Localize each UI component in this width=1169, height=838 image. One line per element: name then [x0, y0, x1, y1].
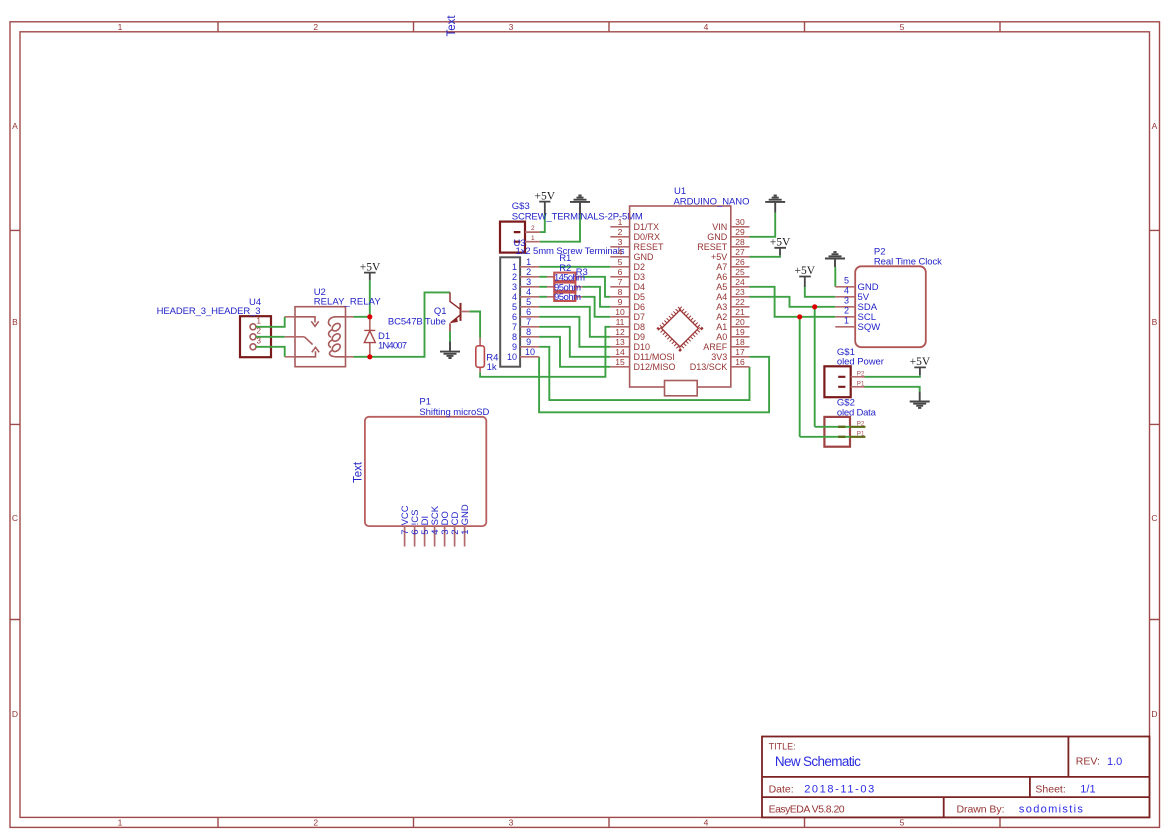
- svg-text:15: 15: [615, 357, 625, 367]
- svg-text:RESET: RESET: [697, 242, 728, 252]
- wire connector.2 to R1: [539, 276, 547, 278]
- title block box: [762, 737, 1150, 818]
- resistor R2: [547, 263, 583, 293]
- svg-text:1/1: 1/1: [1080, 783, 1095, 795]
- wire G$1 P1 to ground: [865, 387, 920, 392]
- svg-text:7: 7: [618, 277, 623, 287]
- ground (under Q1): [440, 342, 460, 359]
- relay pin stubs: [285, 317, 354, 357]
- svg-text:23: 23: [735, 287, 745, 297]
- svg-text:6: 6: [526, 307, 531, 317]
- wire P2 5V to +5V: [805, 287, 836, 297]
- right pin numbers U1: [735, 217, 745, 367]
- wire G$1 P2 to +5V: [865, 375, 920, 377]
- ground (P2 GND): [825, 252, 845, 267]
- svg-text:D2: D2: [634, 262, 646, 272]
- wire Q1 emitter to ground: [449, 331, 451, 341]
- junction node SCL: [797, 314, 802, 319]
- wire A4 to P2 SDA: [750, 297, 836, 307]
- svg-text:19: 19: [735, 327, 745, 337]
- junction node (relay top): [367, 314, 372, 319]
- svg-text:30: 30: [735, 217, 745, 227]
- svg-text:GND: GND: [707, 232, 728, 242]
- svg-text:4: 4: [704, 817, 709, 827]
- svg-text:3: 3: [844, 295, 849, 305]
- svg-text:3: 3: [509, 817, 514, 827]
- frame ticks left: [10, 230, 20, 619]
- wire U4.2 to relay pin2: [256, 336, 285, 338]
- wire connector.6 to D10: [539, 317, 610, 347]
- svg-text:sodomistis: sodomistis: [1019, 804, 1084, 816]
- wire connector.4 to R3: [539, 296, 547, 298]
- svg-text:2: 2: [512, 272, 517, 282]
- svg-text:SQW: SQW: [858, 322, 881, 333]
- svg-text:14: 14: [615, 347, 625, 357]
- svg-text:21: 21: [735, 307, 745, 317]
- row letters right: [1151, 121, 1157, 719]
- svg-text:4: 4: [844, 285, 849, 295]
- svg-text:8: 8: [512, 332, 517, 342]
- column numbers bottom: [118, 817, 905, 827]
- svg-text:oled Power: oled Power: [837, 356, 884, 367]
- wire Arduino +5V27 to power: [750, 255, 781, 256]
- junction node (relay bottom): [367, 354, 372, 359]
- svg-text:10: 10: [507, 352, 517, 362]
- svg-text:1: 1: [512, 262, 517, 272]
- svg-text:RESET: RESET: [634, 242, 665, 252]
- svg-text:C: C: [12, 513, 18, 523]
- wire SCL branch to G$2 P1 (over box): [800, 436, 850, 438]
- svg-text:25: 25: [735, 267, 745, 277]
- wire connector.3 to R2: [539, 286, 547, 288]
- svg-text:Shifting microSD: Shifting microSD: [419, 407, 489, 418]
- svg-text:5: 5: [900, 817, 905, 827]
- svg-text:D7: D7: [634, 312, 646, 322]
- wire SDA branch (vertical): [814, 307, 816, 427]
- svg-text:+5V: +5V: [910, 356, 931, 368]
- svg-text:REV:: REV:: [1076, 756, 1100, 768]
- U1 chip diamond with pin hatching: [659, 308, 700, 349]
- header U4: [157, 297, 271, 357]
- P1 pin stubs: [405, 526, 465, 546]
- wire relay top to +5V node: [354, 280, 370, 316]
- svg-text:VIN: VIN: [712, 222, 727, 232]
- wire SDA branch to G$2 P2 (over box): [815, 426, 850, 428]
- svg-text:TITLE:: TITLE:: [769, 742, 796, 752]
- svg-text:D8: D8: [634, 322, 646, 332]
- svg-text:29: 29: [735, 227, 745, 237]
- relay switch lever: [304, 337, 312, 345]
- wire Q1 base to R4: [469, 312, 480, 338]
- wire SCL branch (vertical): [799, 317, 801, 437]
- svg-text:A7: A7: [716, 262, 727, 272]
- svg-text:1: 1: [257, 316, 262, 325]
- TITLEBLOCK: [762, 737, 1150, 818]
- wire G$2 P2 stub overlap (olive): [838, 426, 865, 428]
- svg-text:GND: GND: [634, 252, 655, 262]
- svg-text:9: 9: [512, 342, 517, 352]
- wire U4.1 to relay pin1: [256, 317, 285, 327]
- svg-text:7: 7: [512, 322, 517, 332]
- svg-text:BC547B Tube: BC547B Tube: [388, 316, 446, 327]
- svg-text:GND: GND: [460, 504, 471, 525]
- svg-text:2: 2: [526, 267, 531, 277]
- relay U2: [285, 287, 382, 367]
- wire R3 to D7: [583, 297, 611, 317]
- wire G$3.1 to ground: [540, 215, 580, 242]
- resistor R3: [547, 267, 588, 303]
- svg-text:26: 26: [735, 257, 745, 267]
- svg-text:11: 11: [616, 317, 625, 327]
- P1 pin names (rotated): [400, 504, 471, 525]
- svg-text:B: B: [1152, 317, 1158, 327]
- wire connector.5 to D9: [539, 307, 610, 337]
- U1 bottom tab: [665, 381, 698, 396]
- left pin names U1: [634, 222, 676, 372]
- svg-text:3: 3: [618, 237, 623, 247]
- svg-text:3: 3: [512, 282, 517, 292]
- svg-text:D3: D3: [634, 272, 646, 282]
- wire A5 to P2 SCL: [750, 287, 836, 317]
- junction node SDA: [812, 304, 817, 309]
- power +5V (Arduino pin 27): [770, 237, 791, 256]
- svg-text:D5: D5: [634, 292, 646, 302]
- svg-text:2: 2: [844, 305, 849, 315]
- svg-text:A3: A3: [716, 302, 727, 312]
- column numbers top: [118, 22, 905, 32]
- connector P2 Real Time Clock: [835, 247, 942, 348]
- svg-text:P1: P1: [857, 380, 865, 387]
- svg-text:D: D: [12, 709, 18, 719]
- svg-text:2: 2: [618, 227, 623, 237]
- svg-text:27: 27: [735, 247, 745, 257]
- svg-text:A0: A0: [716, 332, 727, 342]
- row letters left: [12, 121, 18, 719]
- svg-text:New Schematic: New Schematic: [775, 754, 861, 769]
- svg-text:C: C: [1151, 513, 1157, 523]
- frame ticks top: [218, 22, 1000, 32]
- svg-text:+5V: +5V: [535, 191, 556, 203]
- svg-text:6: 6: [512, 312, 517, 322]
- svg-text:1: 1: [526, 257, 531, 267]
- wire connector.9 to D13/SCK: [539, 347, 749, 400]
- svg-text:7: 7: [526, 317, 531, 327]
- svg-text:D11/MOSI: D11/MOSI: [634, 352, 675, 362]
- connector G$2 oled Data: [824, 397, 876, 446]
- svg-text:17: 17: [735, 347, 745, 357]
- svg-text:ARDUINO_NANO: ARDUINO_NANO: [674, 196, 750, 207]
- svg-text:D4: D4: [634, 282, 646, 292]
- wire G$2 P1 stub overlap (olive): [838, 436, 865, 438]
- transistor Q1: [388, 292, 470, 331]
- svg-text:D: D: [1151, 709, 1157, 719]
- svg-text:Drawn By:: Drawn By:: [957, 804, 1005, 816]
- svg-text:A2: A2: [716, 312, 727, 322]
- svg-text:4: 4: [618, 247, 623, 257]
- relay coil: [329, 317, 346, 357]
- resistor R4: [476, 338, 499, 373]
- right pin names U1: [690, 222, 728, 372]
- svg-text:5: 5: [526, 297, 531, 307]
- svg-text:R3: R3: [576, 267, 588, 278]
- left pin numbers U1: [615, 217, 625, 367]
- wire Arduino GND29 to ground: [750, 213, 776, 237]
- screw terminal G$3: [500, 201, 643, 257]
- connector G$1 oled Power: [824, 347, 884, 397]
- svg-text:2: 2: [313, 817, 318, 827]
- frame ticks right: [1150, 230, 1160, 619]
- wire R4 to D8: [480, 327, 610, 377]
- svg-text:5: 5: [512, 302, 517, 312]
- svg-text:Sheet:: Sheet:: [1035, 783, 1065, 795]
- svg-text:+5V: +5V: [360, 261, 381, 273]
- wire R2 to D6: [583, 287, 611, 307]
- power +5V (relay): [360, 261, 381, 280]
- wire U4.3 to relay pin3: [256, 347, 285, 357]
- power +5V (G$3): [535, 191, 556, 215]
- svg-text:D13/SCK: D13/SCK: [690, 362, 728, 372]
- svg-text:8: 8: [526, 327, 531, 337]
- svg-text:3: 3: [509, 22, 514, 32]
- svg-text:6: 6: [618, 267, 623, 277]
- svg-text:oled Data: oled Data: [837, 407, 877, 418]
- svg-text:Date:: Date:: [769, 783, 794, 795]
- connector P1 Shifting microSD: [353, 397, 490, 547]
- svg-text:24: 24: [735, 277, 745, 287]
- svg-text:+5V: +5V: [711, 252, 727, 262]
- svg-text:4: 4: [512, 292, 517, 302]
- svg-text:D1/TX: D1/TX: [634, 222, 660, 232]
- svg-text:D0/RX: D0/RX: [634, 232, 661, 242]
- svg-text:Text: Text: [353, 461, 365, 483]
- ground (Arduino GND pin 29): [765, 196, 785, 213]
- svg-text:1: 1: [118, 22, 123, 32]
- wire connector.1 to D2: [539, 266, 610, 268]
- svg-text:1.0: 1.0: [1107, 756, 1122, 768]
- wire G$3.2 to +5V: [540, 215, 545, 233]
- svg-text:+5V: +5V: [795, 265, 816, 277]
- svg-text:EasyEDA V5.8.20: EasyEDA V5.8.20: [769, 804, 845, 816]
- svg-text:1: 1: [531, 235, 535, 242]
- connector 10-pin (screw terminals): [500, 257, 539, 366]
- svg-text:4: 4: [526, 287, 531, 297]
- ground (G$1): [910, 392, 930, 408]
- svg-text:R2: R2: [559, 263, 571, 274]
- svg-text:RELAY_RELAY: RELAY_RELAY: [314, 296, 382, 307]
- svg-text:4: 4: [704, 22, 709, 32]
- wire relay bottom node to Q1 collector: [354, 292, 451, 356]
- svg-text:3: 3: [526, 277, 531, 287]
- svg-text:2: 2: [531, 225, 535, 232]
- svg-text:D10: D10: [634, 342, 651, 352]
- svg-text:A6: A6: [716, 272, 727, 282]
- svg-text:D6: D6: [634, 302, 646, 312]
- svg-text:1: 1: [118, 817, 123, 827]
- diode D1: [364, 318, 407, 356]
- relay contact arrows: [295, 317, 319, 327]
- svg-text:A: A: [12, 121, 18, 131]
- svg-text:10: 10: [615, 307, 625, 317]
- svg-text:16: 16: [735, 357, 745, 367]
- power +5V (G$1): [910, 356, 931, 375]
- svg-text:20: 20: [735, 317, 745, 327]
- svg-text:5: 5: [844, 275, 849, 285]
- svg-text:+5V: +5V: [770, 237, 791, 249]
- svg-text:SCREW_TERMINALS-2P-5MM: SCREW_TERMINALS-2P-5MM: [512, 212, 643, 223]
- svg-text:1N4007: 1N4007: [378, 341, 407, 352]
- frame ticks bottom: [218, 817, 1000, 827]
- svg-text:8: 8: [618, 287, 623, 297]
- svg-text:1: 1: [460, 530, 471, 535]
- svg-text:D9: D9: [634, 332, 646, 342]
- svg-text:1: 1: [844, 315, 849, 325]
- svg-text:10: 10: [525, 347, 535, 357]
- power +5V (P2 5V): [795, 265, 816, 287]
- svg-text:3V3: 3V3: [711, 352, 727, 362]
- svg-text:28: 28: [735, 237, 745, 247]
- left pin stubs U1: [610, 227, 629, 367]
- wire connector.7 to D11: [539, 327, 610, 357]
- svg-text:2: 2: [313, 22, 318, 32]
- svg-text:18: 18: [735, 337, 745, 347]
- svg-text:22: 22: [735, 297, 745, 307]
- ground (G$3): [570, 196, 590, 215]
- svg-text:A: A: [1152, 121, 1158, 131]
- svg-text:P2: P2: [857, 370, 865, 377]
- svg-text:95ohm: 95ohm: [554, 292, 581, 303]
- wire P2 GND to ground: [834, 267, 836, 287]
- WIRES: [354, 213, 920, 437]
- svg-text:Text: Text: [446, 15, 458, 37]
- op-amp U1 ARDUINO_NANO: [610, 186, 749, 396]
- svg-text:9: 9: [618, 297, 623, 307]
- svg-text:AREF: AREF: [703, 342, 728, 352]
- svg-text:G$3: G$3: [512, 201, 530, 212]
- COMPONENTS: [157, 15, 643, 373]
- svg-text:A5: A5: [716, 282, 727, 292]
- svg-text:1k: 1k: [487, 362, 497, 373]
- svg-text:A1: A1: [716, 322, 727, 332]
- svg-text:HEADER_3_HEADER_3: HEADER_3_HEADER_3: [157, 306, 261, 317]
- resistor R1: [547, 253, 585, 284]
- wire connector.10 to 3V3: [539, 357, 769, 413]
- svg-text:B: B: [12, 317, 18, 327]
- svg-text:5: 5: [900, 22, 905, 32]
- right pin stubs U1: [731, 227, 750, 367]
- wire connector.8 to D12: [539, 337, 610, 367]
- svg-text:A4: A4: [716, 292, 727, 302]
- svg-text:5: 5: [618, 257, 623, 267]
- wire R1 to D5: [583, 277, 611, 297]
- svg-text:Real Time Clock: Real Time Clock: [874, 257, 942, 268]
- svg-text:D12/MISO: D12/MISO: [634, 362, 676, 372]
- svg-text:9: 9: [526, 337, 531, 347]
- svg-text:12: 12: [615, 327, 625, 337]
- svg-text:1: 1: [618, 217, 623, 227]
- P1 pin numbers (rotated): [400, 530, 471, 535]
- svg-text:13: 13: [615, 337, 625, 347]
